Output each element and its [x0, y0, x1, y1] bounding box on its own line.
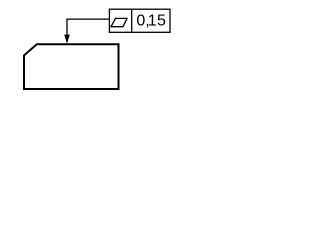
feature control frame: [109, 9, 170, 32]
tolerance value 0,15: [136, 13, 166, 30]
svg-text:0,15: 0,15: [136, 13, 166, 30]
part outline (chamfered block): [24, 44, 119, 89]
flatness symbol: [111, 18, 127, 26]
leader wire: [67, 19, 109, 40]
arrowhead: [64, 35, 70, 44]
